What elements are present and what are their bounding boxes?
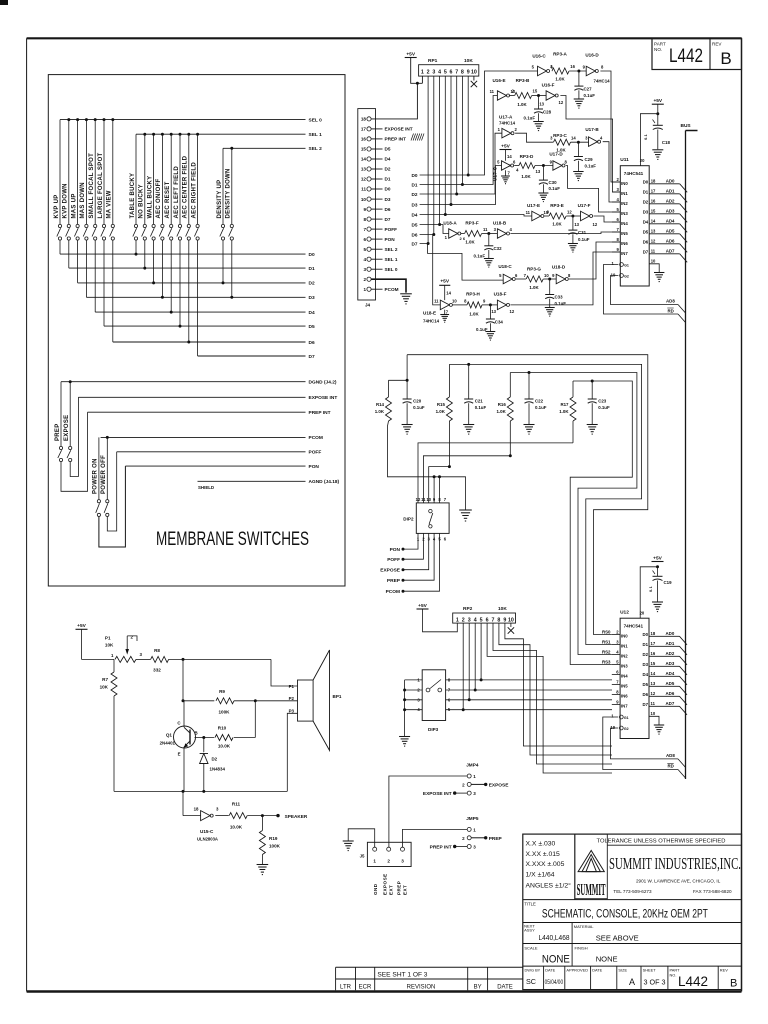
svg-text:6: 6 <box>515 273 518 278</box>
svg-text:8: 8 <box>497 617 500 623</box>
svg-text:G1: G1 <box>624 264 629 268</box>
svg-text:13: 13 <box>361 167 367 172</box>
svg-text:ASSY: ASSY <box>524 928 535 933</box>
svg-text:D6: D6 <box>643 239 649 244</box>
svg-text:C23: C23 <box>598 399 607 404</box>
svg-text:U18-C: U18-C <box>498 264 512 269</box>
svg-text:D6: D6 <box>309 340 315 346</box>
svg-text:D0: D0 <box>385 187 391 192</box>
svg-text:8: 8 <box>616 690 619 695</box>
svg-text:10: 10 <box>651 259 656 264</box>
svg-text:14: 14 <box>651 218 656 223</box>
svg-text:D1: D1 <box>643 189 649 194</box>
svg-text:D3: D3 <box>385 197 391 202</box>
svg-text:DIP2: DIP2 <box>403 517 414 522</box>
svg-text:0.1: 0.1 <box>649 586 653 592</box>
svg-text:RS0: RS0 <box>602 629 611 634</box>
svg-text:D7: D7 <box>385 217 391 222</box>
svg-text:U16-F: U16-F <box>542 83 555 88</box>
svg-text:U17-A: U17-A <box>499 115 513 120</box>
svg-text:12: 12 <box>651 691 656 696</box>
svg-text:6: 6 <box>513 160 516 165</box>
svg-text:RP2: RP2 <box>463 606 473 612</box>
svg-text:100K: 100K <box>269 844 281 849</box>
svg-text:SUMMIT: SUMMIT <box>577 880 606 899</box>
svg-text:RP3-C: RP3-C <box>553 133 567 138</box>
svg-text:7: 7 <box>508 171 511 176</box>
svg-text:C27: C27 <box>584 87 593 92</box>
svg-text:AEC LEFT FIELD: AEC LEFT FIELD <box>174 166 180 219</box>
svg-text:PREP: PREP <box>397 881 402 895</box>
svg-text:14: 14 <box>361 157 367 162</box>
svg-text:19: 19 <box>610 725 615 730</box>
svg-text:8: 8 <box>461 69 464 75</box>
svg-text:B: B <box>730 978 737 990</box>
svg-text:1.0K: 1.0K <box>555 77 565 82</box>
svg-text:X.XXX ±.005: X.XXX ±.005 <box>526 861 565 868</box>
svg-text:POFF: POFF <box>387 557 400 563</box>
svg-text:11: 11 <box>490 89 495 94</box>
svg-text:DWG BY: DWG BY <box>525 968 541 973</box>
svg-text:2: 2 <box>462 782 465 787</box>
svg-text:PREP: PREP <box>55 423 61 441</box>
svg-text:ANGLES ±1/2°: ANGLES ±1/2° <box>526 881 572 889</box>
svg-text:G2: G2 <box>624 275 629 279</box>
svg-text:12: 12 <box>567 210 572 215</box>
svg-text:0.1uF: 0.1uF <box>524 116 536 121</box>
svg-text:AD4: AD4 <box>666 671 675 676</box>
svg-text:SMALL FOCAL SPOT: SMALL FOCAL SPOT <box>89 153 95 219</box>
svg-text:AEC RIGHT FIELD: AEC RIGHT FIELD <box>191 162 197 219</box>
svg-text:9: 9 <box>583 65 586 70</box>
svg-text:D5: D5 <box>412 222 418 227</box>
svg-text:AEC CENTER FIELD: AEC CENTER FIELD <box>183 155 189 218</box>
svg-text:SEL 1: SEL 1 <box>385 257 398 262</box>
svg-text:U18-E: U18-E <box>423 311 436 316</box>
svg-text:16: 16 <box>361 137 367 142</box>
svg-text:7: 7 <box>455 69 458 75</box>
svg-text:12: 12 <box>593 222 598 227</box>
svg-text:C34: C34 <box>495 320 504 325</box>
svg-text:DENSITY UP: DENSITY UP <box>217 180 223 219</box>
svg-text:SUMMIT INDUSTRIES,INC.: SUMMIT INDUSTRIES,INC. <box>609 854 741 873</box>
svg-text:SEL 2: SEL 2 <box>309 146 323 152</box>
svg-text:18: 18 <box>194 807 199 812</box>
svg-text:10: 10 <box>508 617 514 623</box>
svg-text:D2: D2 <box>385 167 391 172</box>
svg-text:D2: D2 <box>309 281 315 287</box>
svg-text:C21: C21 <box>475 399 484 404</box>
svg-text:12: 12 <box>651 238 656 243</box>
svg-text:JMP4: JMP4 <box>466 763 479 768</box>
svg-text:2901 W. LAWRENCE AVE, CHICAGO,: 2901 W. LAWRENCE AVE, CHICAGO, IL <box>636 879 721 884</box>
svg-text:IN4: IN4 <box>621 673 628 678</box>
svg-text:14: 14 <box>446 291 451 296</box>
svg-text:D1: D1 <box>412 182 418 187</box>
svg-text:0.1uF: 0.1uF <box>585 164 597 169</box>
svg-text:11: 11 <box>651 248 656 253</box>
svg-text:AD1: AD1 <box>666 641 675 646</box>
svg-text:9: 9 <box>616 247 619 252</box>
svg-text:1.0K: 1.0K <box>375 409 385 414</box>
svg-text:12: 12 <box>559 100 564 105</box>
svg-text:SIZE: SIZE <box>618 968 627 973</box>
svg-text:8: 8 <box>616 237 619 242</box>
svg-text:1.0K: 1.0K <box>552 222 562 227</box>
svg-text:EXPOSE: EXPOSE <box>64 415 70 441</box>
svg-text:4: 4 <box>510 227 513 232</box>
svg-text:SPEAKER: SPEAKER <box>285 814 308 819</box>
svg-text:LTR: LTR <box>340 984 352 990</box>
svg-text:SHIELD: SHIELD <box>198 485 214 490</box>
svg-text:P1: P1 <box>289 684 295 689</box>
svg-text:3: 3 <box>494 227 497 232</box>
svg-text:PON: PON <box>385 237 396 242</box>
svg-text:C29: C29 <box>585 157 594 162</box>
svg-text:3: 3 <box>616 187 619 192</box>
svg-text:1: 1 <box>421 69 424 75</box>
svg-text:0.1uF: 0.1uF <box>598 405 610 410</box>
svg-text:4: 4 <box>474 617 477 623</box>
svg-text:BUS: BUS <box>681 123 692 129</box>
svg-text:1: 1 <box>363 287 366 292</box>
svg-text:6: 6 <box>363 237 366 242</box>
svg-text:P3: P3 <box>289 709 295 714</box>
svg-text:L442: L442 <box>669 46 703 67</box>
svg-text:4: 4 <box>616 197 619 202</box>
svg-text:R17: R17 <box>560 402 569 407</box>
svg-text:100K: 100K <box>219 710 231 715</box>
svg-text:0.1uF: 0.1uF <box>535 405 547 410</box>
svg-text:5: 5 <box>616 207 619 212</box>
svg-text:1: 1 <box>498 127 501 132</box>
svg-text:5: 5 <box>444 69 447 75</box>
svg-text:16: 16 <box>651 198 656 203</box>
svg-text:RP1: RP1 <box>428 58 438 64</box>
svg-text:1: 1 <box>373 859 376 864</box>
svg-text:10K: 10K <box>498 606 507 612</box>
svg-text:D6: D6 <box>643 692 649 697</box>
svg-text:1: 1 <box>445 235 448 240</box>
svg-text:EXT: EXT <box>403 885 408 895</box>
svg-text:PON: PON <box>309 464 320 470</box>
svg-text:IN7: IN7 <box>621 251 628 256</box>
svg-text:1: 1 <box>611 714 614 719</box>
svg-text:B: B <box>195 731 198 736</box>
svg-text:AD5: AD5 <box>666 228 675 233</box>
svg-text:MATERIAL: MATERIAL <box>574 924 594 929</box>
svg-text:13: 13 <box>651 228 656 233</box>
svg-text:0.1uF: 0.1uF <box>578 237 590 242</box>
svg-text:74HC14: 74HC14 <box>499 121 516 126</box>
svg-text:SCHEMATIC, CONSOLE, 20KHz OEM: SCHEMATIC, CONSOLE, 20KHz OEM 2PT <box>542 907 708 921</box>
svg-text:10: 10 <box>452 299 457 304</box>
svg-text:G1: G1 <box>624 716 629 720</box>
svg-text:1: 1 <box>473 827 476 832</box>
svg-text:DENSITY DOWN: DENSITY DOWN <box>226 168 232 218</box>
svg-text:17: 17 <box>651 188 656 193</box>
svg-text:2N4401: 2N4401 <box>160 741 176 746</box>
svg-text:RS3: RS3 <box>602 659 611 664</box>
svg-text:IN6: IN6 <box>621 693 628 698</box>
svg-text:D5: D5 <box>309 324 315 330</box>
svg-text:9: 9 <box>467 69 470 75</box>
svg-text:MAS DOWN: MAS DOWN <box>80 182 86 218</box>
svg-text:14: 14 <box>571 136 576 141</box>
svg-text:E: E <box>178 752 181 757</box>
svg-text:8: 8 <box>565 160 568 165</box>
svg-text:IN1: IN1 <box>621 191 628 196</box>
svg-text:18: 18 <box>651 178 656 183</box>
svg-text:IN3: IN3 <box>621 663 628 668</box>
svg-text:1: 1 <box>611 261 614 266</box>
svg-text:6: 6 <box>616 670 619 675</box>
svg-text:EXPOSE: EXPOSE <box>489 782 510 788</box>
svg-text:EXPOSE: EXPOSE <box>380 568 401 574</box>
svg-text:9: 9 <box>550 160 553 165</box>
svg-text:7: 7 <box>616 680 619 685</box>
svg-text:ECR: ECR <box>359 984 372 990</box>
svg-text:13: 13 <box>491 309 496 314</box>
svg-text:IN5: IN5 <box>621 231 628 236</box>
svg-text:U11: U11 <box>620 157 629 163</box>
svg-text:LARGE FOCAL SPOT: LARGE FOCAL SPOT <box>98 152 104 218</box>
svg-text:3: 3 <box>216 807 219 812</box>
svg-text:RD: RD <box>668 308 674 313</box>
svg-text:AD3: AD3 <box>666 661 675 666</box>
svg-text:5: 5 <box>497 160 500 165</box>
svg-text:U18-A: U18-A <box>443 221 457 226</box>
svg-text:POWER ON: POWER ON <box>93 458 99 494</box>
svg-text:U12: U12 <box>620 610 629 616</box>
svg-text:17: 17 <box>361 127 367 132</box>
svg-text:AD5: AD5 <box>666 681 675 686</box>
svg-text:+5V: +5V <box>653 555 662 561</box>
svg-text:EXPOSE INT: EXPOSE INT <box>423 791 452 797</box>
svg-text:12: 12 <box>510 309 515 314</box>
svg-text:U17-D: U17-D <box>549 152 563 157</box>
svg-text:15: 15 <box>651 661 656 666</box>
svg-text:10K: 10K <box>464 58 473 64</box>
svg-text:U17-C: U17-C <box>492 166 497 181</box>
svg-text:C30: C30 <box>549 180 558 185</box>
svg-text:R19: R19 <box>269 836 278 841</box>
svg-text:3: 3 <box>432 69 435 75</box>
svg-text:REV: REV <box>712 42 722 47</box>
svg-text:15: 15 <box>651 208 656 213</box>
svg-text:74HC541: 74HC541 <box>624 171 644 176</box>
svg-text:PREP: PREP <box>387 578 401 584</box>
svg-text:SEL 1: SEL 1 <box>309 132 323 138</box>
svg-text:D6: D6 <box>385 207 391 212</box>
svg-text:2: 2 <box>616 177 619 182</box>
svg-text:X.XX ±.015: X.XX ±.015 <box>526 851 561 858</box>
svg-text:1: 1 <box>473 774 476 779</box>
svg-text:D3: D3 <box>412 202 418 207</box>
svg-text:AEC ON/OFF: AEC ON/OFF <box>156 178 162 218</box>
svg-text:G2: G2 <box>624 727 629 731</box>
svg-text:U18-B: U18-B <box>493 221 507 226</box>
svg-text:6: 6 <box>616 217 619 222</box>
svg-text:POFF: POFF <box>309 450 322 456</box>
svg-text:SCALE: SCALE <box>524 946 537 951</box>
svg-text:RP3-F: RP3-F <box>465 221 478 226</box>
svg-text:D4: D4 <box>643 219 649 224</box>
svg-text:R15: R15 <box>437 402 446 407</box>
svg-text:IN3: IN3 <box>621 211 628 216</box>
svg-text:18: 18 <box>361 117 367 122</box>
svg-text:3: 3 <box>585 136 588 141</box>
svg-text:9: 9 <box>552 273 555 278</box>
svg-text:13: 13 <box>539 102 544 107</box>
svg-text:D5: D5 <box>385 147 391 152</box>
svg-text:0.1uF: 0.1uF <box>475 405 487 410</box>
svg-text:EXT: EXT <box>389 885 394 895</box>
svg-text:AGND (J4.18): AGND (J4.18) <box>309 479 340 485</box>
svg-text:RP3-E: RP3-E <box>550 203 564 208</box>
svg-text:SEL 2: SEL 2 <box>385 247 398 252</box>
svg-text:D7: D7 <box>412 241 418 246</box>
svg-text:X.X ±.030: X.X ±.030 <box>526 841 556 848</box>
svg-text:U18-F: U18-F <box>494 292 507 297</box>
svg-text:P1: P1 <box>105 636 111 641</box>
svg-text:C33: C33 <box>555 295 564 300</box>
svg-text:1.0K: 1.0K <box>517 102 527 107</box>
svg-text:U15-C: U15-C <box>200 829 214 834</box>
svg-text:GND: GND <box>373 883 378 895</box>
svg-text:2: 2 <box>363 277 366 282</box>
svg-text:NONE: NONE <box>542 954 570 966</box>
svg-text:RS1: RS1 <box>602 639 611 644</box>
svg-text:RP3-B: RP3-B <box>516 78 530 83</box>
svg-text:D1: D1 <box>385 177 391 182</box>
svg-text:D2: D2 <box>643 199 649 204</box>
svg-text:3: 3 <box>473 845 476 850</box>
svg-text:FAX 773-588-6820: FAX 773-588-6820 <box>693 889 732 894</box>
svg-text:16: 16 <box>651 651 656 656</box>
svg-text:1.0K: 1.0K <box>521 174 531 179</box>
svg-text:L442: L442 <box>678 974 708 989</box>
svg-text:JMP5: JMP5 <box>466 816 479 821</box>
svg-text:3: 3 <box>473 791 476 796</box>
svg-text:NO.: NO. <box>670 973 677 978</box>
svg-text:9: 9 <box>616 700 619 705</box>
svg-text:FINISH: FINISH <box>575 946 588 951</box>
svg-text:D0: D0 <box>309 252 315 258</box>
svg-text:2: 2 <box>387 859 390 864</box>
svg-text:11: 11 <box>361 187 366 192</box>
svg-text:R7: R7 <box>102 677 108 682</box>
svg-text:AD6: AD6 <box>666 238 675 243</box>
svg-text:74HC14: 74HC14 <box>423 319 440 324</box>
svg-text:7: 7 <box>446 310 449 315</box>
svg-text:10: 10 <box>361 197 367 202</box>
svg-text:10: 10 <box>544 273 549 278</box>
svg-text:DIP3: DIP3 <box>428 727 439 732</box>
svg-text:PREP INT: PREP INT <box>430 845 452 851</box>
svg-text:PREP INT: PREP INT <box>309 410 331 416</box>
svg-text:9: 9 <box>363 207 366 212</box>
svg-text:IN2: IN2 <box>621 201 628 206</box>
svg-text:4: 4 <box>516 168 519 173</box>
svg-text:AD2: AD2 <box>666 651 675 656</box>
svg-text:R11: R11 <box>232 802 241 807</box>
svg-text:REVISION: REVISION <box>407 984 436 990</box>
svg-text:U17-F: U17-F <box>578 203 591 208</box>
svg-text:2: 2 <box>462 617 465 623</box>
svg-text:17: 17 <box>651 641 656 646</box>
svg-text:18: 18 <box>651 631 656 636</box>
svg-text:2: 2 <box>131 635 134 640</box>
svg-text:ULN2803A: ULN2803A <box>197 837 218 842</box>
svg-text:AD0: AD0 <box>666 178 675 183</box>
svg-text:RP3-H: RP3-H <box>466 292 480 297</box>
svg-text:U16-E: U16-E <box>492 78 505 83</box>
svg-text:1.0K: 1.0K <box>529 285 539 290</box>
svg-text:11: 11 <box>651 701 656 706</box>
svg-text:J4: J4 <box>365 303 371 308</box>
svg-text:AD4: AD4 <box>666 218 675 223</box>
svg-text:1N4834: 1N4834 <box>210 767 226 772</box>
svg-text:3: 3 <box>468 617 471 623</box>
svg-text:+5V: +5V <box>77 623 86 629</box>
svg-text:6: 6 <box>486 617 489 623</box>
svg-text:BP1: BP1 <box>333 694 342 699</box>
svg-text:U18-D: U18-D <box>552 265 566 270</box>
svg-text:PCOM: PCOM <box>385 287 399 292</box>
svg-text:2: 2 <box>427 69 430 75</box>
svg-text:13: 13 <box>574 222 579 227</box>
svg-text:3: 3 <box>363 267 366 272</box>
svg-text:12: 12 <box>361 177 367 182</box>
svg-text:DATE: DATE <box>545 968 555 973</box>
svg-text:PCOM: PCOM <box>309 435 323 441</box>
svg-text:D3: D3 <box>643 209 649 214</box>
svg-text:5: 5 <box>499 273 502 278</box>
svg-text:IN2: IN2 <box>621 653 628 658</box>
svg-text:7: 7 <box>444 497 447 502</box>
svg-text:0.1uF: 0.1uF <box>584 93 596 98</box>
svg-text:SEL 0: SEL 0 <box>309 117 323 123</box>
svg-text:1.0K: 1.0K <box>465 240 475 245</box>
svg-text:74HC541: 74HC541 <box>624 624 644 629</box>
svg-text:D4: D4 <box>385 157 391 162</box>
svg-text:AD3: AD3 <box>666 208 675 213</box>
svg-text:AD8: AD8 <box>666 753 675 758</box>
svg-text:1.0K: 1.0K <box>469 312 479 317</box>
svg-text:8: 8 <box>363 217 366 222</box>
svg-text:5: 5 <box>363 247 366 252</box>
svg-text:4: 4 <box>616 650 619 655</box>
svg-text:POFF: POFF <box>385 227 398 232</box>
svg-text:+5V: +5V <box>653 98 662 104</box>
svg-text:APPROVED: APPROVED <box>566 968 588 973</box>
svg-text:4: 4 <box>600 136 603 141</box>
svg-text:D2: D2 <box>643 652 649 657</box>
svg-text:IN6: IN6 <box>621 241 628 246</box>
svg-text:+5V: +5V <box>418 603 427 609</box>
svg-text:7: 7 <box>616 227 619 232</box>
svg-text:10.0K: 10.0K <box>218 744 231 749</box>
svg-text:NO BUCKY: NO BUCKY <box>139 184 145 218</box>
svg-text:9: 9 <box>503 617 506 623</box>
svg-text:AD6: AD6 <box>666 691 675 696</box>
svg-text:0.1: 0.1 <box>644 134 648 140</box>
svg-text:D1: D1 <box>309 266 315 272</box>
svg-text:8: 8 <box>601 65 604 70</box>
svg-text:RD: RD <box>668 764 674 769</box>
svg-text:9: 9 <box>483 299 486 304</box>
